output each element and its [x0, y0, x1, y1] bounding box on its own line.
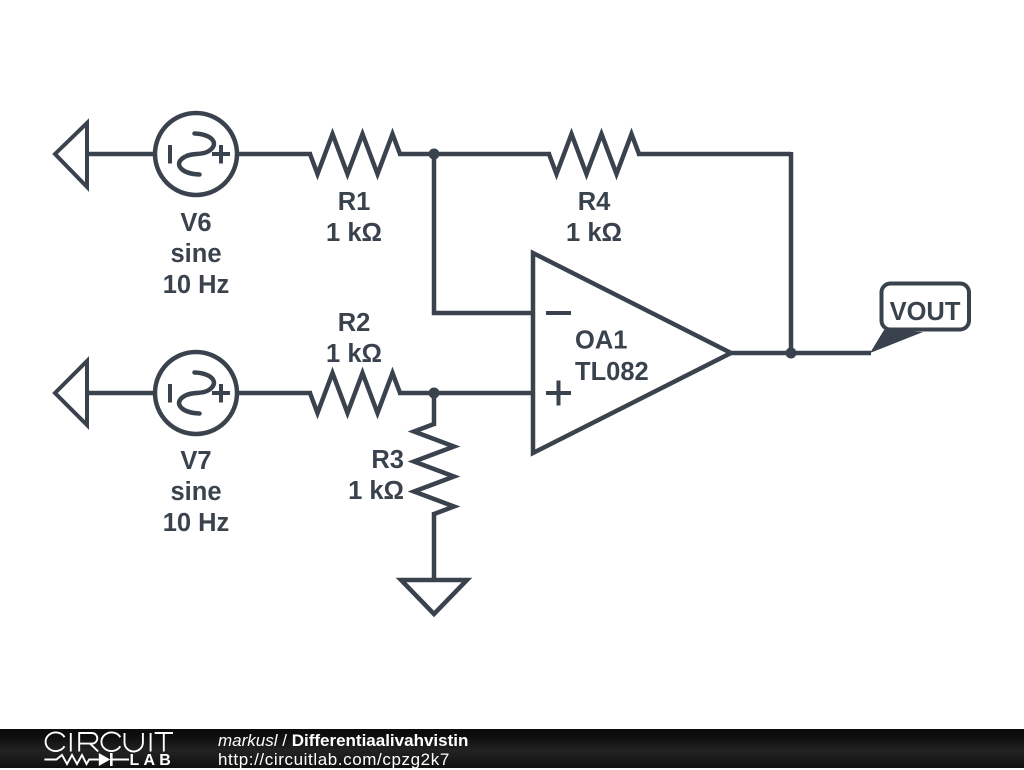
wire right vertical feedback	[789, 152, 794, 353]
svg-text:1 kΩ: 1 kΩ	[566, 219, 622, 247]
wire flag V7 to V7	[87, 391, 157, 396]
svg-text:sine: sine	[170, 240, 221, 268]
output node junction dot	[786, 348, 797, 359]
node A junction dot	[429, 149, 440, 160]
svg-text:R3: R3	[371, 446, 404, 474]
wire R3 to ground	[432, 512, 437, 580]
input flag V7	[55, 361, 87, 425]
voltage source V7 minus terminal bar	[168, 384, 172, 403]
resistor R1 zigzag	[310, 134, 400, 174]
footer watermark bar	[0, 729, 1024, 768]
svg-text:V6: V6	[180, 209, 211, 237]
ground symbol	[401, 580, 467, 614]
svg-text:OA1: OA1	[575, 327, 627, 355]
footer author / title line	[218, 731, 468, 751]
logo letter I	[150, 733, 152, 752]
wire R2 to op-amp non-inverting input through node B	[398, 391, 531, 396]
wire node B down to R3	[432, 395, 437, 426]
wire node A down to inverting input elbow	[434, 156, 531, 313]
VOUT flag tail	[870, 330, 923, 353]
voltage source V6 minus terminal bar	[168, 145, 172, 164]
svg-text:LAB: LAB	[130, 752, 175, 768]
input flag V6	[55, 123, 87, 187]
svg-text:VOUT: VOUT	[890, 298, 961, 326]
resistor R2 zigzag	[310, 373, 400, 413]
logo resistor squiggle	[44, 755, 98, 764]
svg-text:R2: R2	[338, 309, 371, 337]
svg-text:1 kΩ: 1 kΩ	[348, 477, 404, 505]
logo letter R	[79, 733, 98, 752]
wire R1 to R4 through node A	[398, 152, 551, 157]
voltage source V7 plus sign	[212, 384, 230, 403]
wire V6 to R1	[235, 152, 312, 157]
VOUT flag box	[882, 284, 970, 330]
op-amp OA1 triangle	[533, 253, 731, 453]
svg-text:TL082: TL082	[575, 358, 649, 386]
svg-text:R4: R4	[578, 188, 611, 216]
logo letter C	[46, 732, 65, 751]
wire V7 to R2	[235, 391, 312, 396]
svg-text:10 Hz: 10 Hz	[163, 509, 230, 537]
svg-text:V7: V7	[180, 447, 211, 475]
voltage source V6 sine squiggle	[179, 134, 214, 175]
logo letter I	[70, 733, 72, 752]
svg-text:R1: R1	[338, 188, 371, 216]
logo diode	[99, 753, 110, 766]
resistor R3 zigzag vertical	[414, 424, 454, 514]
voltage source V7 sine squiggle	[179, 373, 214, 414]
wire flag V6 to V6	[87, 152, 157, 157]
CircuitLab logo	[0, 729, 200, 768]
footer url line	[218, 750, 450, 770]
node B junction dot	[429, 388, 440, 399]
logo letter C	[101, 732, 120, 751]
wire R4 to top-right corner	[637, 152, 791, 157]
logo letter T	[155, 733, 173, 752]
svg-text:10 Hz: 10 Hz	[163, 271, 230, 299]
op-amp OA1 minus input symbol	[546, 311, 571, 315]
logo letter U	[125, 733, 143, 752]
svg-text:sine: sine	[170, 478, 221, 506]
voltage source V7 circle	[155, 352, 237, 434]
op-amp OA1 plus input symbol	[546, 381, 571, 406]
svg-text:1 kΩ: 1 kΩ	[326, 340, 382, 368]
voltage source V6 plus sign	[212, 145, 230, 164]
wire op-amp output to VOUT	[729, 351, 871, 356]
resistor R4 zigzag	[549, 134, 639, 174]
voltage source V6 circle	[155, 113, 237, 195]
svg-text:1 kΩ: 1 kΩ	[326, 219, 382, 247]
